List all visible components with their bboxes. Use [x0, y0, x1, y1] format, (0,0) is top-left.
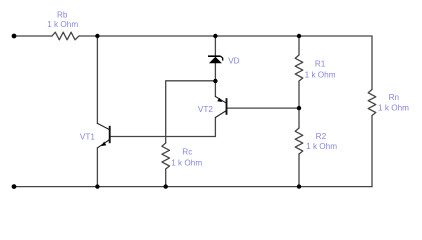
wire diode cathode top: [214, 36, 216, 56]
wire diode anode bottom: [214, 63, 216, 81]
svg-text:Rb: Rb: [57, 10, 68, 19]
wire VT1 base to VT2 collector: [110, 136, 216, 138]
wire R1 bottom lead: [298, 81, 300, 108]
terminal input top: [12, 34, 17, 39]
svg-text:VD: VD: [228, 57, 239, 66]
wire VT2 collector: [214, 118, 216, 137]
svg-text:1 k Ohm: 1 k Ohm: [306, 142, 337, 151]
wire bottom rail: [14, 186, 372, 188]
wire Rn top lead: [371, 36, 373, 90]
svg-text:1 k Ohm: 1 k Ohm: [47, 20, 78, 29]
svg-text:R2: R2: [316, 132, 327, 141]
junction node top A: [95, 34, 99, 38]
junction VT1 emitter bottom: [95, 184, 99, 188]
svg-text:R1: R1: [315, 60, 326, 69]
junction diode bottom / VT2 emitter: [213, 79, 217, 83]
resistor R1: [295, 55, 303, 81]
junction diode top: [213, 34, 217, 38]
junction Rc bottom: [164, 184, 168, 188]
wire R2 bottom lead: [298, 154, 300, 187]
resistor Rn: [368, 90, 376, 116]
junction R1 top: [297, 34, 301, 38]
wire VT1 collector: [96, 36, 98, 123]
transistor VT1: [97, 123, 109, 147]
svg-text:Rn: Rn: [389, 93, 400, 102]
wire node link to Rc: [166, 81, 216, 143]
wire R1 top lead: [298, 36, 300, 55]
wire Rn bottom lead: [371, 116, 373, 187]
diode VD zener: [208, 56, 223, 63]
wire VT1 emitter: [96, 148, 98, 187]
svg-text:1 k Ohm: 1 k Ohm: [305, 70, 336, 79]
resistor R2: [295, 128, 303, 154]
terminal input bottom: [12, 184, 17, 189]
wire R2 top lead: [298, 108, 300, 128]
svg-text:VT1: VT1: [80, 133, 95, 142]
svg-text:1 k Ohm: 1 k Ohm: [171, 158, 202, 167]
wire Rc bottom lead: [165, 169, 167, 187]
resistor Rb: [52, 32, 79, 40]
junction R2 bottom: [297, 184, 301, 188]
svg-text:Rc: Rc: [182, 147, 192, 156]
wire top rail left: [14, 35, 52, 37]
wire top rail right: [79, 35, 372, 37]
wire VT2 base: [227, 107, 300, 109]
svg-text:1 k Ohm: 1 k Ohm: [378, 103, 409, 112]
svg-text:VT2: VT2: [198, 105, 213, 114]
junction R1-R2 VT2 base: [297, 106, 301, 110]
transistor VT2: [215, 97, 226, 118]
resistor Rc: [162, 143, 170, 169]
wire VT2 emitter: [214, 81, 216, 97]
